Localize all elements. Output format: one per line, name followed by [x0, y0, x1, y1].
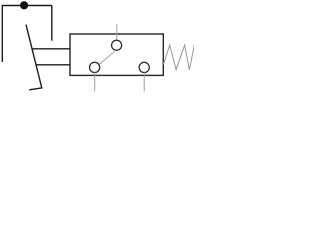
switch blade [98, 51, 114, 65]
contact circle left [90, 62, 100, 72]
pin 1 (common, top) [116, 24, 118, 40]
junction dot [20, 1, 28, 9]
contact circle common [112, 40, 122, 50]
contact circle right [139, 62, 149, 72]
pin 2 (bottom left) [94, 73, 96, 92]
wire [2, 6, 52, 62]
pin 3 (bottom right) [143, 73, 145, 92]
switch body S1 [70, 34, 163, 75]
wire [51, 6, 53, 41]
actuator rod upper [32, 48, 70, 50]
resistor R [163, 43, 194, 70]
actuator rod lower [36, 64, 70, 66]
lever actuator [26, 25, 42, 90]
